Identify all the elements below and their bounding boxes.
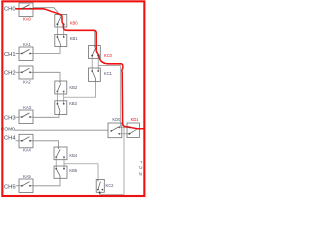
svg-text:KB1: KB1 xyxy=(70,36,78,41)
wire CH1 to KA1 xyxy=(16,53,20,55)
contact dots overlay on red path xyxy=(21,8,130,135)
wire CH4 to KA4 xyxy=(16,140,20,142)
relay contact KB4 xyxy=(54,147,67,160)
wire bus KC0-KC1 right xyxy=(97,56,99,71)
wire COM0 to KD0 xyxy=(15,129,109,131)
svg-text:U: U xyxy=(139,165,142,170)
relay contact KD0 xyxy=(108,123,122,138)
wire bus KB2-KB3 left xyxy=(56,92,58,104)
svg-text:KB5: KB5 xyxy=(69,168,77,173)
svg-text:KA2: KA2 xyxy=(23,79,31,84)
wire bus KD0-KD1 bottom xyxy=(119,133,129,135)
wire KA0 to KB0 xyxy=(33,8,60,15)
svg-text:KB2: KB2 xyxy=(69,85,77,90)
wire CH5 to KA5 xyxy=(16,185,20,187)
wire KB2 pair output to KC1 xyxy=(64,82,96,98)
relay contact KD1 xyxy=(127,123,139,138)
svg-text:KB0: KB0 xyxy=(70,21,78,26)
relay contact KA4 xyxy=(19,134,33,148)
relay contact KA5 xyxy=(19,179,33,193)
relay contact KB0 xyxy=(55,15,67,28)
wire KA2 to KB2 xyxy=(33,72,60,81)
frame border xyxy=(2,1,144,196)
wire bus KB0-KB1 left xyxy=(56,24,58,37)
svg-text:CH1: CH1 xyxy=(4,52,16,58)
wire KC2 output to KD bus xyxy=(100,127,124,194)
red wire CH0 through KA0 xyxy=(16,9,61,15)
relay contact KB5 xyxy=(54,166,67,178)
wire KA4 to KB4 xyxy=(33,141,59,147)
wire KA1 to KB1 xyxy=(33,47,60,54)
wire KB0 pair output to KC0 xyxy=(64,26,95,46)
wire KB4 pair output to KC2 xyxy=(64,164,98,180)
svg-text:CH5: CH5 xyxy=(4,185,16,191)
wire KC0 pair output to KD0 contact xyxy=(98,65,120,127)
junction KC2 output xyxy=(99,192,101,194)
red wire through KD1 to output xyxy=(128,127,145,129)
relay contact KA3 xyxy=(19,110,33,124)
wire bus KB4-KB5 right xyxy=(63,157,65,169)
svg-text:CH4: CH4 xyxy=(4,136,16,142)
svg-text:KC0: KC0 xyxy=(104,53,113,58)
relay contact KB2 xyxy=(55,81,67,94)
wire bus KC0-KC1 left xyxy=(91,56,93,71)
svg-text:KA1: KA1 xyxy=(23,42,31,47)
wire KA3 to KB3 xyxy=(33,115,59,118)
relay contact KA2 xyxy=(19,66,33,79)
svg-text:KA3: KA3 xyxy=(23,105,31,110)
svg-text:N: N xyxy=(139,172,142,177)
wire CH3 to KA3 xyxy=(16,116,20,118)
wire bus KB0-KB1 right xyxy=(63,24,65,37)
wire KA5 to KB5 xyxy=(33,179,60,186)
svg-text:KD0: KD0 xyxy=(112,117,121,122)
wire bus KB2-KB3 right xyxy=(63,92,65,104)
relay contact KC0 xyxy=(89,46,101,59)
svg-text:KB4: KB4 xyxy=(69,153,77,158)
relay contact KC2 xyxy=(96,179,104,192)
svg-text:KC1: KC1 xyxy=(104,71,113,76)
svg-text:KB3: KB3 xyxy=(69,101,77,106)
svg-text:KA0: KA0 xyxy=(23,16,31,21)
svg-text:KA4: KA4 xyxy=(23,148,31,153)
wire bus KD0-KD1 top xyxy=(119,126,129,128)
svg-text:KA5: KA5 xyxy=(23,174,31,179)
contact blade KA0 overlay xyxy=(22,5,30,9)
relay contact KC1 xyxy=(89,68,101,82)
relay contact KA0 xyxy=(19,3,33,17)
svg-text:KC2: KC2 xyxy=(106,183,115,188)
red highlighted signal path CH0 to output xyxy=(16,9,145,129)
relay contact KB1 xyxy=(55,35,67,47)
svg-text:COM0: COM0 xyxy=(1,126,15,132)
relay contact KB3 xyxy=(55,101,67,115)
svg-text:T: T xyxy=(140,159,143,164)
wire CH2 to KA2 xyxy=(16,71,20,73)
svg-text:CH0: CH0 xyxy=(4,6,16,12)
red wire through KC0 and right xyxy=(96,47,121,64)
svg-text:CH2: CH2 xyxy=(4,70,16,76)
wire bus KB4-KB5 left xyxy=(55,157,57,169)
red wire down into KC0 xyxy=(94,30,97,47)
red wire down right column xyxy=(121,64,128,127)
svg-text:KD1: KD1 xyxy=(131,117,140,122)
svg-text:CH3: CH3 xyxy=(4,115,16,121)
relay contact KA1 xyxy=(19,47,33,61)
red wire through KB0 down xyxy=(61,15,94,31)
